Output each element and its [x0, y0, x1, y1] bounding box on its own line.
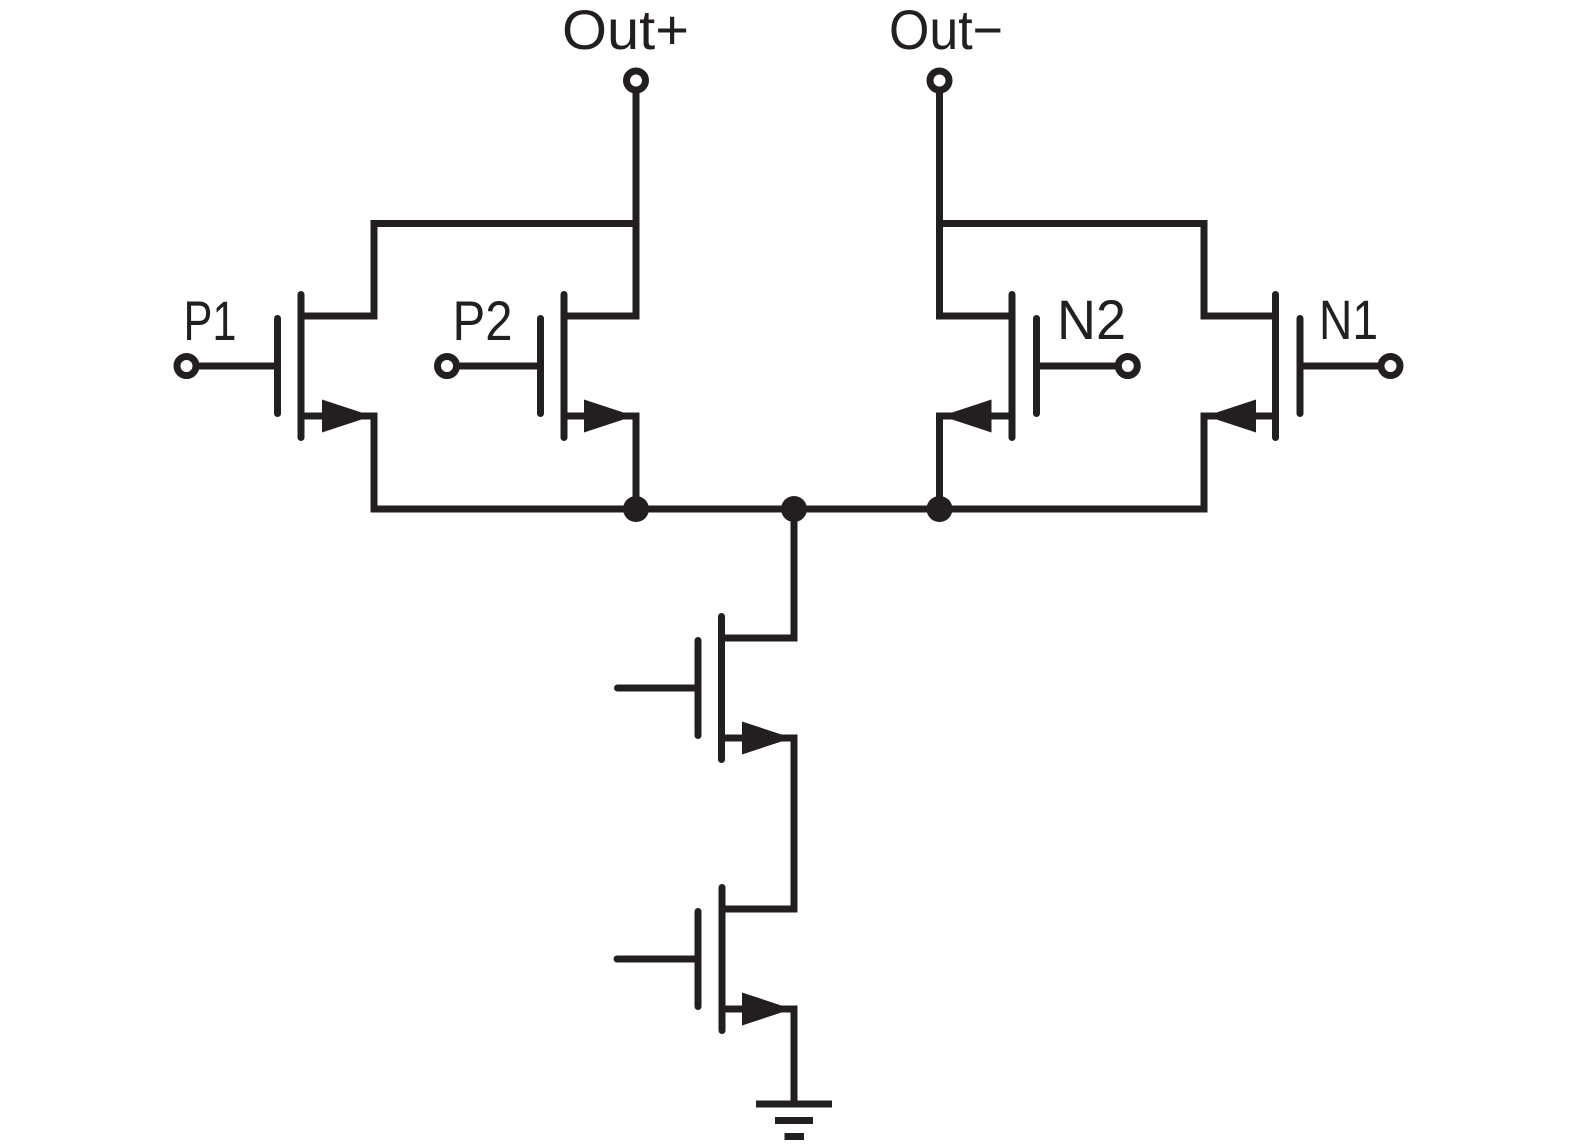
- wire: Out+ stem down and P2 drain lead: [564, 90, 636, 316]
- transistor M4 tail cascode bottom: [617, 888, 792, 1031]
- svg-text:N1: N1: [1319, 288, 1378, 351]
- junction dot center: [781, 496, 807, 522]
- transistor P1: [196, 295, 372, 438]
- output terminal Out+: [627, 71, 646, 90]
- wire: Out- stem down and N2 drain lead: [940, 90, 1013, 316]
- wire: source bus P1-to-N1 with bottom rail: [301, 416, 1276, 509]
- wire: N2 source drop to bus: [940, 416, 1013, 509]
- transistor N1: [1206, 295, 1381, 438]
- svg-text:N2: N2: [1057, 288, 1126, 351]
- wire: P1 drain up to Out+ top rail: [301, 224, 636, 317]
- svg-text:Out−: Out−: [889, 0, 1003, 61]
- gate terminal P2: [438, 357, 457, 376]
- wire: N1 drain up to Out- top rail: [940, 224, 1276, 317]
- junction dot right: [927, 496, 953, 522]
- output terminal Out-: [930, 71, 949, 90]
- junction dot left: [623, 496, 649, 522]
- gate terminal P1: [177, 357, 196, 376]
- gate terminal N2: [1118, 357, 1137, 376]
- svg-text:Out+: Out+: [562, 0, 689, 61]
- transistor M3 tail cascode top: [618, 617, 793, 760]
- gate terminal N1: [1381, 357, 1400, 376]
- transistor P2: [457, 295, 635, 438]
- svg-text:P1: P1: [184, 289, 237, 352]
- wire: M4 source down to ground: [722, 1009, 794, 1104]
- transistor N2: [942, 295, 1119, 438]
- ground: [756, 1104, 832, 1137]
- wire: tail node down to M3 drain: [722, 509, 795, 638]
- wire: M3 source to M4 drain: [722, 738, 795, 909]
- wire: P2 source drop to bus: [564, 416, 636, 509]
- svg-text:P2: P2: [453, 289, 513, 352]
